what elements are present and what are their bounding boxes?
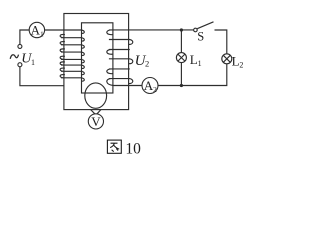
transformer core inner rectangle — [82, 23, 113, 93]
voltmeter lead right — [97, 109, 102, 114]
ammeter A1 — [29, 22, 44, 37]
transformer core outer rectangle — [64, 14, 129, 110]
wire A2 right to L2 bottom corner — [158, 64, 227, 86]
svg-text:2: 2 — [239, 60, 243, 69]
svg-text:V: V — [91, 114, 101, 129]
svg-text:1: 1 — [31, 58, 35, 67]
svg-text:L: L — [232, 53, 240, 68]
svg-text:L: L — [190, 52, 198, 67]
AC tilde symbol — [10, 55, 18, 59]
lamp L2 branch top wire — [215, 30, 227, 54]
junction dot top — [180, 28, 183, 31]
junction dot bottom — [180, 84, 183, 87]
voltmeter V — [88, 114, 103, 129]
svg-text:2: 2 — [145, 59, 149, 69]
svg-text:S: S — [197, 29, 204, 43]
AC source top terminal — [18, 44, 22, 48]
switch S contact circle — [194, 28, 198, 32]
caption hanzi TU (figure) drawn as strokes — [107, 140, 121, 153]
svg-text:2: 2 — [153, 85, 157, 94]
ammeter A2 — [142, 78, 158, 94]
lamp L2 — [222, 54, 232, 64]
svg-text:1: 1 — [40, 29, 44, 38]
svg-text:10: 10 — [125, 140, 141, 157]
wire A1 left to source corner — [20, 30, 29, 44]
AC source bottom terminal — [18, 63, 22, 67]
voltmeter pickup loop around bottom limb — [85, 83, 107, 108]
svg-text:1: 1 — [198, 59, 202, 68]
wire source bottom down and right to core — [20, 67, 64, 86]
primary coil winding with top wire from A1 — [45, 30, 85, 81]
switch S lever — [197, 22, 213, 29]
lamp L1 branch vertical bottom — [180, 63, 182, 86]
secondary coil winding with top wire to switch and bottom wire to A2 — [107, 30, 193, 86]
voltmeter lead left — [90, 109, 95, 114]
lamp L1 branch vertical top — [180, 30, 182, 53]
lamp L1 — [176, 53, 186, 63]
